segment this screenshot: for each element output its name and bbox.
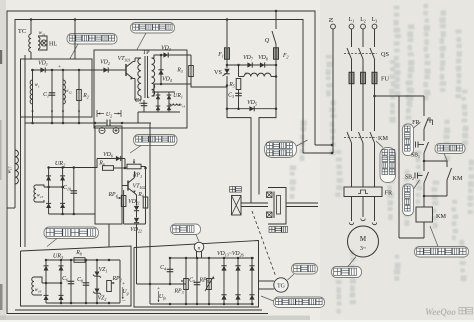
diode VD5 freewheel	[227, 108, 276, 110]
fuse F2	[274, 48, 279, 60]
capacitor C8	[85, 260, 87, 303]
svg-text:R2: R2	[82, 93, 89, 99]
transformer TC	[30, 20, 32, 35]
svg-text:RP3: RP3	[173, 289, 183, 295]
svg-text:Q: Q	[265, 37, 270, 44]
svg-text:F2: F2	[282, 53, 289, 59]
resistor R4	[145, 168, 147, 224]
svg-text:R6: R6	[98, 161, 105, 167]
U2 measurement annotation	[96, 110, 98, 117]
svg-text:R4: R4	[137, 192, 144, 198]
capacitor C1	[51, 70, 53, 107]
contactor auxiliary contact KM	[446, 161, 448, 167]
svg-text:SB1: SB1	[411, 153, 420, 159]
svg-text:VD6: VD6	[103, 152, 113, 158]
svg-text:U2: U2	[106, 112, 112, 118]
transformer TP core	[144, 56, 146, 98]
zener VZ2	[95, 289, 100, 294]
svg-text:n: n	[198, 246, 201, 252]
svg-text:L2: L2	[360, 17, 366, 23]
fuse F1	[226, 20, 228, 48]
svg-text:Ufn: Ufn	[159, 294, 166, 300]
callout preamplifier stage	[134, 135, 178, 146]
svg-text:VD1: VD1	[38, 61, 48, 67]
svg-text:VD4: VD4	[162, 77, 172, 83]
svg-text:Ug: Ug	[122, 289, 128, 295]
capacitor C10	[73, 168, 75, 215]
given voltage block box	[21, 246, 132, 306]
stop button SB1	[418, 144, 424, 146]
potentiometer RP5	[208, 258, 210, 304]
svg-text:w12: w12	[65, 89, 72, 94]
svg-text:ε: ε	[245, 71, 247, 76]
svg-text:KM: KM	[453, 175, 463, 182]
svg-text:VD8: VD8	[258, 55, 268, 61]
svg-text:R8: R8	[75, 250, 82, 256]
svg-text:C2: C2	[135, 98, 141, 104]
clutch supply feed upper	[315, 144, 332, 146]
switch Q	[275, 11, 277, 29]
UR2 bottom wire	[49, 213, 95, 215]
svg-text:C10: C10	[63, 185, 71, 191]
switch QS	[351, 29, 353, 47]
capacitor C3	[238, 90, 240, 109]
svg-text:TG: TG	[277, 284, 285, 290]
wire preamp to RP3	[137, 283, 187, 285]
diode VD4	[160, 55, 162, 84]
clutch label	[269, 227, 275, 233]
svg-text:−: −	[122, 298, 126, 305]
motor leads	[351, 197, 353, 222]
svg-text:w16: w16	[35, 288, 42, 293]
callout stop button	[403, 124, 414, 156]
Ug annotation	[119, 260, 121, 303]
wire to given-voltage box	[108, 224, 110, 247]
svg-text:C5: C5	[189, 278, 195, 284]
speed feedback block box	[134, 241, 259, 308]
svg-text:TP: TP	[142, 49, 150, 56]
capacitor C6	[70, 260, 72, 303]
speed box top wire	[170, 257, 254, 259]
svg-text:3~: 3~	[360, 246, 367, 252]
terminal plus	[113, 128, 119, 134]
potentiometer RP2	[107, 281, 112, 292]
svg-text:KM: KM	[436, 213, 446, 220]
load symbol	[230, 187, 236, 193]
svg-text:UR1: UR1	[173, 93, 183, 99]
Ug top wire	[46, 259, 120, 261]
svg-text:C6: C6	[62, 276, 68, 282]
diode VD6	[116, 156, 121, 161]
clutch housing bracket	[268, 188, 286, 225]
svg-text:w11: w11	[39, 31, 46, 36]
resistor R5	[236, 79, 241, 90]
UR2 output wire	[49, 167, 97, 169]
zener VZ1	[96, 260, 98, 303]
thyristor VS	[226, 65, 228, 68]
wire anode bus into box	[74, 20, 76, 60]
svg-text:w1: w1	[34, 83, 39, 88]
generator field winding w17	[15, 150, 18, 184]
Ug bottom wire	[46, 302, 120, 304]
control tap junction	[373, 95, 376, 98]
left vertical wire B	[24, 55, 26, 247]
tacho generator TG	[274, 278, 288, 292]
preamp long bus wire	[149, 123, 151, 284]
svg-text:+: +	[147, 96, 150, 101]
callout contactor main contacts	[380, 148, 396, 183]
svg-text:C4: C4	[160, 265, 166, 271]
thermal relay contact FR	[424, 118, 429, 130]
indicator lamp HL	[41, 40, 47, 46]
winding w11	[38, 37, 40, 49]
potentiometer RP1	[127, 164, 141, 169]
rectifier UR1	[157, 92, 159, 112]
callout speed negative feedback	[274, 297, 325, 308]
bus wire U2 node	[25, 122, 106, 124]
diode VD7	[247, 62, 252, 67]
callout electromagnetic clutch power supply	[265, 141, 297, 158]
svg-text:w15: w15	[37, 194, 44, 199]
contactor coil KM	[416, 207, 433, 222]
svg-text:FU: FU	[381, 76, 389, 83]
svg-text:RP5: RP5	[198, 278, 208, 284]
svg-text:VZ1: VZ1	[99, 267, 108, 273]
callout tachometer meter	[171, 224, 201, 235]
phase shift trigger block box	[94, 50, 187, 128]
diode VD2	[103, 67, 108, 72]
preamp input wire	[96, 159, 98, 169]
comparison input box	[95, 126, 122, 224]
dashed mechanical link to tachometer	[252, 211, 276, 277]
callout tachometer machine	[292, 264, 318, 275]
left edge scan marks	[0, 50, 2, 64]
svg-text:VD13~VD26: VD13~VD26	[217, 251, 244, 257]
neutral terminal N	[331, 24, 336, 29]
transformer TP windings	[133, 61, 135, 63]
svg-text:R3: R3	[176, 68, 183, 74]
inner bus wire	[15, 20, 303, 209]
secondary top wire	[152, 55, 192, 58]
svg-text:L3: L3	[372, 17, 378, 23]
svg-text:−: −	[157, 301, 161, 308]
svg-text:w17: w17	[8, 166, 13, 173]
svg-text:FR: FR	[412, 120, 419, 126]
clutch armature plates	[273, 192, 275, 219]
svg-text:VT101: VT101	[118, 56, 131, 62]
wire VD7 VD8 branch	[227, 64, 276, 66]
diode VD1	[40, 67, 45, 72]
winding w1	[32, 70, 34, 107]
transformer TP secondary	[152, 58, 155, 96]
callout self-holding contact	[435, 144, 465, 154]
svg-text:FR: FR	[385, 190, 393, 197]
wire N down	[332, 29, 334, 153]
svg-text:C1: C1	[43, 92, 49, 98]
clutch output shaft	[286, 202, 318, 204]
thermal relay FR	[344, 187, 382, 197]
callout given voltage circuit	[44, 227, 99, 239]
svg-text:VD22: VD22	[130, 227, 142, 233]
svg-text:QS: QS	[381, 51, 389, 58]
svg-text:C8: C8	[77, 277, 83, 283]
shaft load to clutch	[241, 202, 268, 204]
fuses FU	[349, 72, 354, 84]
self-holding branch wire	[424, 160, 447, 162]
callout start button	[403, 184, 414, 216]
winding w14	[170, 104, 180, 106]
svg-text:+: +	[58, 64, 61, 70]
svg-text:L1: L1	[349, 17, 355, 23]
secondary bottom wire	[152, 84, 192, 96]
trigger output wire to VS gate	[191, 84, 227, 87]
potentiometer RP4	[123, 190, 125, 224]
svg-text:VD3: VD3	[161, 46, 171, 52]
svg-text:M: M	[360, 235, 367, 243]
contactor KM main contacts	[347, 132, 352, 143]
transistor VT102	[122, 185, 128, 187]
current arrows	[31, 111, 33, 113]
callout prime mover	[332, 267, 362, 278]
terminal L2	[361, 24, 366, 29]
callout phase shift trigger	[131, 23, 175, 34]
svg-text:VD7: VD7	[243, 55, 254, 61]
resistor R2	[78, 70, 80, 107]
svg-text:TC: TC	[18, 28, 26, 35]
svg-text:VD21: VD21	[128, 199, 140, 205]
preamp bottom rail	[124, 223, 146, 225]
callout contactor coil	[415, 247, 469, 258]
resistor R6	[103, 166, 114, 171]
clutch bearing bottom	[267, 212, 273, 218]
motor M	[348, 226, 379, 257]
svg-text:VD5: VD5	[247, 100, 257, 106]
capacitor C2	[143, 100, 145, 112]
svg-text:RP4: RP4	[107, 192, 117, 198]
bleed-through text from reverse side	[290, 4, 474, 314]
winding w12	[62, 70, 64, 107]
box bottom connection wires	[32, 107, 34, 123]
svg-text:SB2: SB2	[405, 175, 414, 181]
svg-text:VS: VS	[214, 69, 222, 76]
callout sawtooth voltage forming	[67, 34, 117, 45]
capacitor C4	[169, 258, 171, 284]
svg-text:VT102: VT102	[133, 184, 146, 190]
clutch bearing top	[267, 192, 273, 198]
resistor R3	[190, 55, 192, 84]
clutch dc output wires	[227, 109, 251, 203]
bottom rail of trigger box	[138, 111, 180, 113]
diode VD21	[136, 203, 138, 206]
meter n	[194, 242, 204, 252]
main wire with VD1 VD2	[31, 69, 121, 71]
series capacitor of U2	[106, 120, 108, 127]
page bottom scan shadow	[0, 316, 310, 321]
wire RP1 to bus	[141, 166, 146, 168]
svg-text:VZ2: VZ2	[98, 296, 107, 302]
terminal L1	[349, 24, 354, 29]
potentiometer RP3	[185, 258, 187, 304]
clutch supply feed lower	[303, 152, 332, 154]
winding w15	[44, 186, 63, 188]
main dc bus wire outer loop	[7, 11, 315, 314]
aux contact reconnection	[424, 195, 447, 197]
sawtooth voltage block box	[21, 59, 93, 117]
terminal minus	[99, 128, 105, 134]
svg-text:N: N	[329, 17, 335, 22]
terminal L3	[372, 24, 377, 29]
start button SB2	[423, 161, 425, 171]
speed box bottom wire	[150, 303, 254, 305]
bottom bus wire	[15, 309, 262, 311]
control wire top	[423, 96, 425, 116]
svg-text:VD2: VD2	[100, 60, 110, 66]
transistor VT101	[121, 69, 126, 71]
diode VD22	[134, 218, 139, 223]
diode VD8	[260, 62, 265, 67]
svg-text:HL: HL	[49, 42, 57, 48]
smoothing inductor	[238, 65, 240, 77]
left vertical wire A	[20, 59, 22, 247]
resistor R8	[74, 258, 85, 263]
diode VD3	[163, 52, 168, 57]
svg-text:WeeQoo: WeeQoo	[425, 307, 456, 317]
svg-text:C3: C3	[228, 93, 234, 99]
svg-text:+: +	[122, 281, 125, 287]
winding w16	[42, 282, 61, 284]
svg-text:R5: R5	[228, 82, 235, 88]
svg-text:KM: KM	[378, 135, 388, 142]
capacitor C5	[196, 258, 198, 304]
svg-text:F1: F1	[217, 52, 224, 58]
control return wire	[423, 222, 425, 238]
